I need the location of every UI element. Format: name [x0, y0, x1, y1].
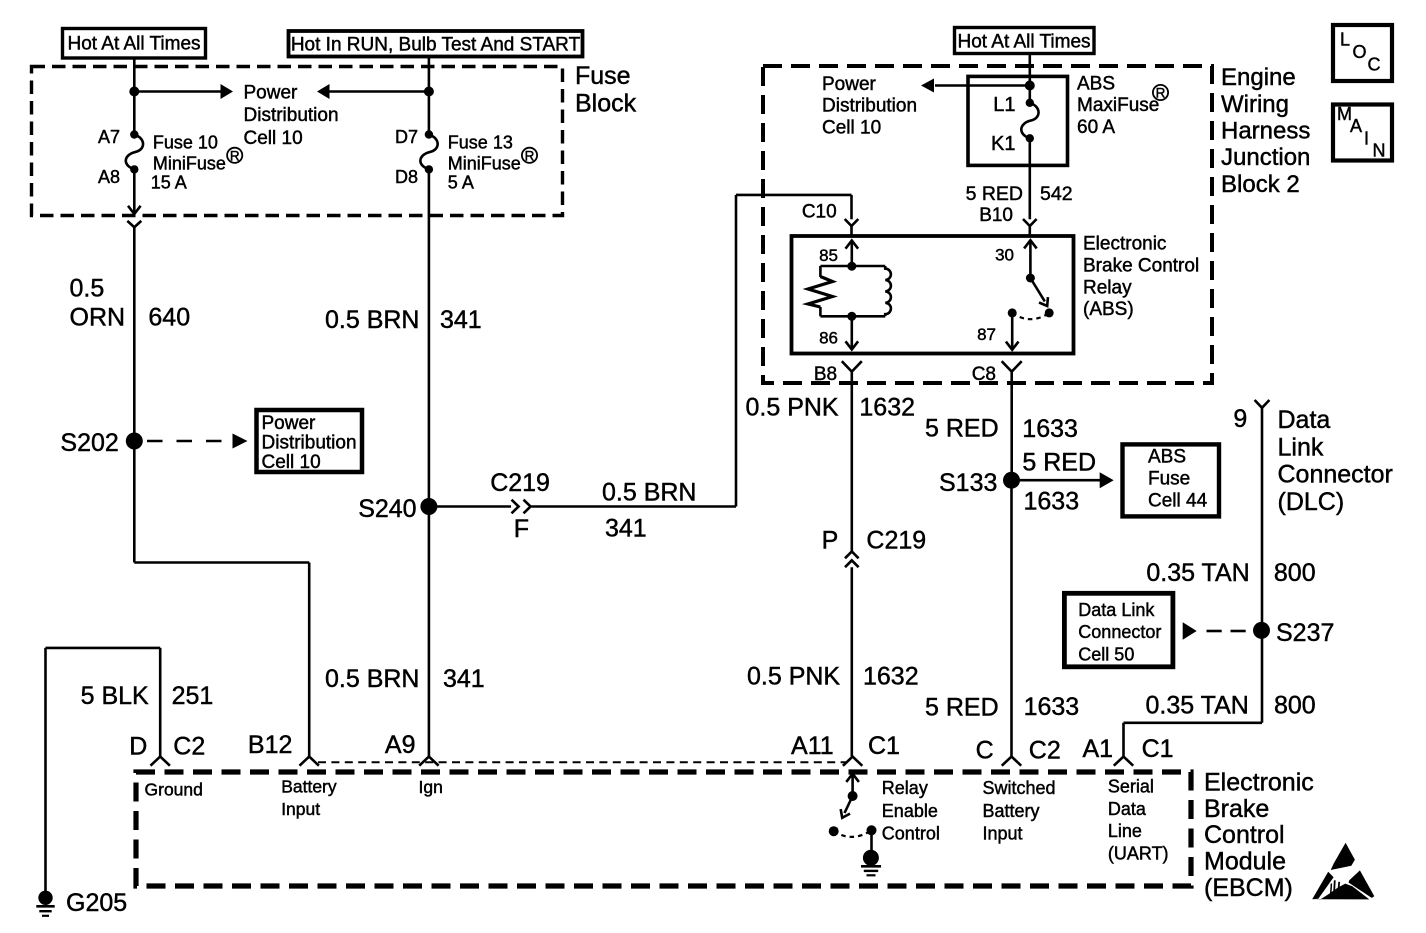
wire S240 branch through connector C219 F	[429, 195, 852, 513]
label Power Distribution Cell 10 (junction block)	[822, 74, 917, 139]
svg-text:0.35 TAN: 0.35 TAN	[1146, 692, 1249, 720]
svg-text:S202: S202	[60, 429, 118, 457]
dashed arrow S202 to Power Distribution Cell 10	[147, 434, 248, 449]
wire pin D to ground G205	[46, 648, 161, 892]
svg-text:0.5: 0.5	[70, 275, 105, 303]
svg-text:A9: A9	[385, 731, 416, 759]
svg-text:Link: Link	[1278, 433, 1324, 461]
relay pin 86 arrow	[819, 316, 858, 349]
relay pin 85 arrow	[819, 241, 858, 267]
svg-text:Data: Data	[1108, 799, 1147, 819]
svg-text:C2: C2	[1029, 737, 1061, 765]
label 5 BLK 251	[81, 682, 214, 710]
junction dot node A7 feed	[129, 87, 139, 97]
arrow to Power Distribution Cell 10 (left)	[134, 84, 233, 99]
connector pin A9 (Ign)	[385, 731, 443, 797]
svg-text:A7: A7	[98, 127, 120, 147]
svg-text:Engine: Engine	[1221, 64, 1296, 91]
svg-text:Enable: Enable	[882, 801, 938, 821]
svg-text:Block 2: Block 2	[1221, 171, 1300, 198]
svg-text:S237: S237	[1276, 619, 1334, 647]
label box Hot At All Times (right)	[955, 28, 1095, 54]
dashed arrow Data Link Connector Cell 50 to S237	[1183, 622, 1246, 639]
wire S133 down to pin C	[1010, 480, 1013, 756]
svg-text:Switched: Switched	[983, 778, 1056, 798]
svg-text:0.5 BRN: 0.5 BRN	[602, 479, 696, 507]
svg-text:A11: A11	[791, 732, 834, 760]
svg-text:1633: 1633	[1022, 415, 1078, 443]
label Electronic Brake Control Relay (ABS)	[1083, 234, 1199, 321]
fuse block dashed outline	[32, 67, 563, 216]
svg-text:(UART): (UART)	[1108, 844, 1169, 864]
svg-text:(EBCM): (EBCM)	[1204, 874, 1293, 902]
svg-text:MaxiFuse: MaxiFuse	[1077, 95, 1159, 116]
relay switch armature	[1008, 274, 1054, 320]
svg-text:Power: Power	[822, 74, 877, 95]
svg-text:5 RED: 5 RED	[966, 183, 1023, 205]
svg-text:Brake: Brake	[1204, 795, 1269, 823]
label 0.35 TAN 800 (upper)	[1146, 559, 1315, 587]
wire from Hot At All Times to fuse 10	[133, 58, 136, 135]
svg-text:Input: Input	[983, 824, 1023, 844]
svg-text:C219: C219	[490, 469, 550, 497]
ground G205	[36, 889, 127, 917]
svg-text:86: 86	[819, 329, 838, 348]
svg-text:Ground: Ground	[145, 780, 203, 800]
svg-text:Fuse: Fuse	[575, 62, 631, 90]
EBCM module dashed outline	[136, 772, 1191, 886]
svg-text:15 A: 15 A	[151, 173, 187, 193]
svg-text:0.35 TAN: 0.35 TAN	[1146, 559, 1249, 587]
svg-text:1632: 1632	[863, 663, 919, 691]
svg-text:(DLC): (DLC)	[1278, 488, 1345, 516]
relay pin 87 arrow	[977, 313, 1018, 350]
inline connector P C219	[822, 527, 927, 757]
svg-text:Hot At All Times: Hot At All Times	[957, 32, 1090, 53]
svg-text:Battery: Battery	[281, 777, 337, 797]
svg-text:Distribution: Distribution	[244, 105, 339, 126]
svg-text:C2: C2	[173, 733, 205, 761]
connector pin D C2 (Ground)	[129, 733, 205, 800]
svg-text:Distribution: Distribution	[822, 96, 917, 117]
wire maxifuse to B10	[1029, 138, 1032, 219]
svg-text:Block: Block	[575, 90, 637, 118]
svg-text:Electronic: Electronic	[1083, 234, 1166, 255]
svg-text:D: D	[129, 733, 147, 761]
svg-text:5 RED: 5 RED	[1022, 448, 1096, 476]
svg-text:800: 800	[1274, 692, 1316, 720]
svg-text:542: 542	[1040, 183, 1073, 205]
svg-text:Data Link: Data Link	[1078, 600, 1155, 620]
svg-text:R: R	[525, 148, 535, 163]
connector pin C C2 (Switched Battery Input)	[976, 737, 1061, 844]
svg-text:1632: 1632	[859, 393, 915, 421]
splice node S237	[1253, 619, 1334, 647]
ESD sensitive device symbol	[1312, 843, 1374, 900]
label box Hot At All Times (left)	[63, 29, 206, 59]
svg-text:S240: S240	[358, 495, 416, 523]
svg-text:A1: A1	[1083, 735, 1114, 763]
svg-text:P: P	[822, 527, 839, 555]
svg-text:(ABS): (ABS)	[1083, 299, 1134, 320]
svg-text:Power: Power	[262, 413, 317, 434]
svg-text:C10: C10	[802, 201, 837, 222]
svg-text:Harness: Harness	[1221, 118, 1310, 145]
wire fuse 13 to S240 and down to A9	[428, 169, 431, 756]
label 0.5 PNK 1632 (upper)	[746, 393, 916, 421]
svg-text:D7: D7	[395, 127, 418, 147]
svg-text:Connector: Connector	[1278, 461, 1393, 489]
svg-text:ABS: ABS	[1148, 447, 1186, 468]
svg-text:5 RED: 5 RED	[925, 415, 999, 443]
svg-text:0.5 PNK: 0.5 PNK	[747, 663, 840, 691]
svg-text:C: C	[976, 737, 994, 765]
wire Hot At All Times to ABS MaxiFuse	[1029, 54, 1032, 103]
svg-text:C1: C1	[868, 732, 900, 760]
svg-text:Module: Module	[1204, 848, 1286, 876]
svg-text:Fuse 13: Fuse 13	[448, 132, 513, 152]
svg-text:Junction: Junction	[1221, 144, 1310, 171]
relay coil and resistor parallel	[808, 262, 891, 321]
svg-text:87: 87	[977, 325, 996, 344]
svg-text:B10: B10	[979, 205, 1013, 226]
connector pin A11 C1 (Relay Enable Control)	[791, 732, 940, 844]
svg-text:D8: D8	[395, 167, 418, 187]
LOC reference box	[1333, 25, 1392, 81]
svg-text:85: 85	[819, 246, 838, 265]
connector pin B8	[814, 361, 862, 551]
svg-text:A8: A8	[98, 167, 120, 187]
svg-text:R: R	[230, 148, 240, 163]
connector pin C8	[972, 361, 1022, 480]
label 5 RED 1633 (lower)	[925, 693, 1079, 722]
relay pin 30 arrow	[995, 240, 1037, 278]
svg-text:MiniFuse: MiniFuse	[448, 154, 521, 174]
svg-text:Cell 10: Cell 10	[244, 128, 303, 149]
label 0.5 BRN 341 (branch)	[602, 479, 696, 543]
svg-text:Cell 44: Cell 44	[1148, 490, 1208, 511]
svg-text:Fuse 10: Fuse 10	[153, 132, 218, 152]
junction dot fuse 13 feed	[424, 87, 434, 97]
svg-text:O: O	[1353, 42, 1367, 62]
connector pin C10	[802, 201, 858, 236]
wire fuse 10 output with connector at fuse block edge	[127, 169, 141, 441]
svg-text:G205: G205	[66, 889, 127, 917]
thin dashed connector line between B12 and A11	[318, 761, 846, 763]
svg-text:F: F	[514, 515, 529, 543]
svg-text:Power: Power	[244, 82, 299, 103]
svg-text:ORN: ORN	[70, 303, 126, 331]
svg-text:C8: C8	[972, 364, 996, 385]
svg-text:Control: Control	[882, 824, 940, 844]
svg-text:1633: 1633	[1024, 693, 1080, 721]
svg-text:S133: S133	[939, 469, 997, 497]
label Data Link Connector (DLC)	[1278, 406, 1393, 516]
svg-text:N: N	[1373, 141, 1386, 161]
svg-text:B12: B12	[248, 731, 292, 759]
EBCM internal ground	[861, 850, 881, 876]
svg-text:Wiring: Wiring	[1221, 91, 1289, 118]
label 0.5 ORN 640	[70, 275, 191, 332]
reference box Power Distribution Cell 10	[257, 410, 363, 473]
arrow to Power Distribution Cell 10 (junction block)	[921, 79, 1030, 93]
svg-text:640: 640	[148, 303, 190, 331]
svg-text:L: L	[1340, 30, 1350, 50]
MAIN reference box	[1333, 104, 1392, 161]
junction dot maxifuse feed	[1025, 81, 1035, 91]
svg-text:5 BLK: 5 BLK	[81, 682, 149, 710]
svg-text:0.5 BRN: 0.5 BRN	[325, 665, 419, 693]
connector pin 9 of DLC	[1233, 400, 1269, 723]
label Engine Wiring Harness Junction Block 2	[1221, 64, 1310, 198]
svg-text:C: C	[1368, 55, 1381, 75]
svg-text:9: 9	[1233, 405, 1247, 433]
svg-text:Connector: Connector	[1078, 622, 1161, 642]
svg-text:ABS: ABS	[1077, 73, 1115, 94]
svg-text:Cell 10: Cell 10	[262, 452, 321, 473]
svg-text:341: 341	[605, 515, 647, 543]
svg-text:Hot In RUN, Bulb Test And STAR: Hot In RUN, Bulb Test And START	[291, 35, 581, 56]
svg-text:R: R	[1156, 86, 1166, 101]
label 0.5 BRN 341 (lower)	[325, 665, 485, 693]
label Power Distribution Cell 10 (fuse block)	[244, 82, 339, 149]
svg-text:Relay: Relay	[882, 778, 928, 798]
wire DLC down and over to pin A1	[1124, 723, 1263, 757]
label box Hot In RUN, Bulb Test And START	[289, 31, 583, 57]
label ABS MaxiFuse 60 A	[1077, 73, 1168, 138]
splice node S240	[358, 495, 437, 523]
svg-text:60 A: 60 A	[1077, 117, 1115, 138]
svg-text:Data: Data	[1278, 406, 1331, 434]
svg-text:Hot At All Times: Hot At All Times	[67, 34, 200, 55]
svg-text:K1: K1	[991, 133, 1015, 155]
svg-text:Battery: Battery	[983, 801, 1040, 821]
wire from Hot In RUN box to fuse 13	[428, 57, 431, 135]
svg-text:30: 30	[995, 246, 1014, 265]
svg-text:Control: Control	[1204, 821, 1285, 849]
svg-text:Distribution: Distribution	[262, 433, 357, 454]
splice node S133 with arrow to ABS Fuse Cell 44	[939, 448, 1114, 515]
svg-text:Line: Line	[1108, 821, 1142, 841]
svg-text:Cell 50: Cell 50	[1078, 645, 1134, 665]
splice node S202	[60, 429, 142, 457]
svg-text:Ign: Ign	[419, 777, 443, 797]
svg-text:0.5 BRN: 0.5 BRN	[325, 306, 419, 334]
svg-text:800: 800	[1274, 559, 1316, 587]
wire S202 down and over to B12	[134, 441, 309, 757]
svg-text:5 A: 5 A	[448, 173, 474, 193]
label Fuse Block	[575, 62, 637, 118]
svg-text:Serial: Serial	[1108, 776, 1154, 796]
label 0.5 PNK 1632 (lower)	[747, 663, 919, 691]
connector pin B12 (Battery Input)	[248, 731, 337, 819]
svg-text:1633: 1633	[1024, 488, 1080, 516]
svg-text:341: 341	[443, 665, 485, 693]
svg-text:251: 251	[172, 682, 214, 710]
label 0.35 TAN 800 (lower)	[1146, 692, 1316, 720]
fuse Fuse 10 MiniFuse 15 A	[98, 127, 242, 193]
svg-text:A: A	[1350, 116, 1362, 136]
reference box ABS Fuse Cell 44	[1123, 444, 1220, 516]
svg-text:Fuse: Fuse	[1148, 469, 1190, 490]
svg-text:B8: B8	[814, 364, 837, 385]
arrow to Power Distribution Cell 10 (from fuse 13 wire)	[317, 84, 429, 99]
svg-text:Cell 10: Cell 10	[822, 118, 881, 139]
svg-text:Input: Input	[281, 799, 320, 819]
svg-text:C1: C1	[1142, 735, 1174, 763]
svg-text:5 RED: 5 RED	[925, 694, 999, 722]
connector pin A1 C1 (Serial Data Line UART)	[1083, 735, 1174, 863]
label C219 F inline connector	[490, 469, 550, 543]
svg-text:Relay: Relay	[1083, 277, 1132, 298]
svg-text:C219: C219	[866, 527, 926, 555]
svg-text:Electronic: Electronic	[1204, 768, 1314, 796]
svg-text:341: 341	[440, 306, 482, 334]
svg-text:0.5 PNK: 0.5 PNK	[746, 393, 839, 421]
svg-text:Brake Control: Brake Control	[1083, 255, 1199, 276]
label Electronic Brake Control Module (EBCM)	[1204, 768, 1314, 902]
reference box Data Link Connector Cell 50	[1064, 593, 1173, 667]
relay ABS Electronic Brake Control Relay box	[792, 236, 1074, 354]
fuse Fuse 13 MiniFuse 5 A	[395, 127, 537, 193]
label 5 RED 1633 (upper)	[925, 415, 1078, 444]
EBCM relay enable control switch	[829, 774, 877, 851]
junction block 2 dashed outline	[763, 66, 1212, 383]
connector pin B10	[979, 205, 1036, 236]
svg-text:MiniFuse: MiniFuse	[153, 154, 226, 174]
svg-text:I: I	[1364, 129, 1369, 149]
label 0.5 BRN 341 (upper)	[325, 306, 482, 334]
svg-text:L1: L1	[993, 94, 1015, 116]
label 5 RED 542	[966, 183, 1073, 205]
ABS MaxiFuse 60 A box	[968, 76, 1068, 165]
